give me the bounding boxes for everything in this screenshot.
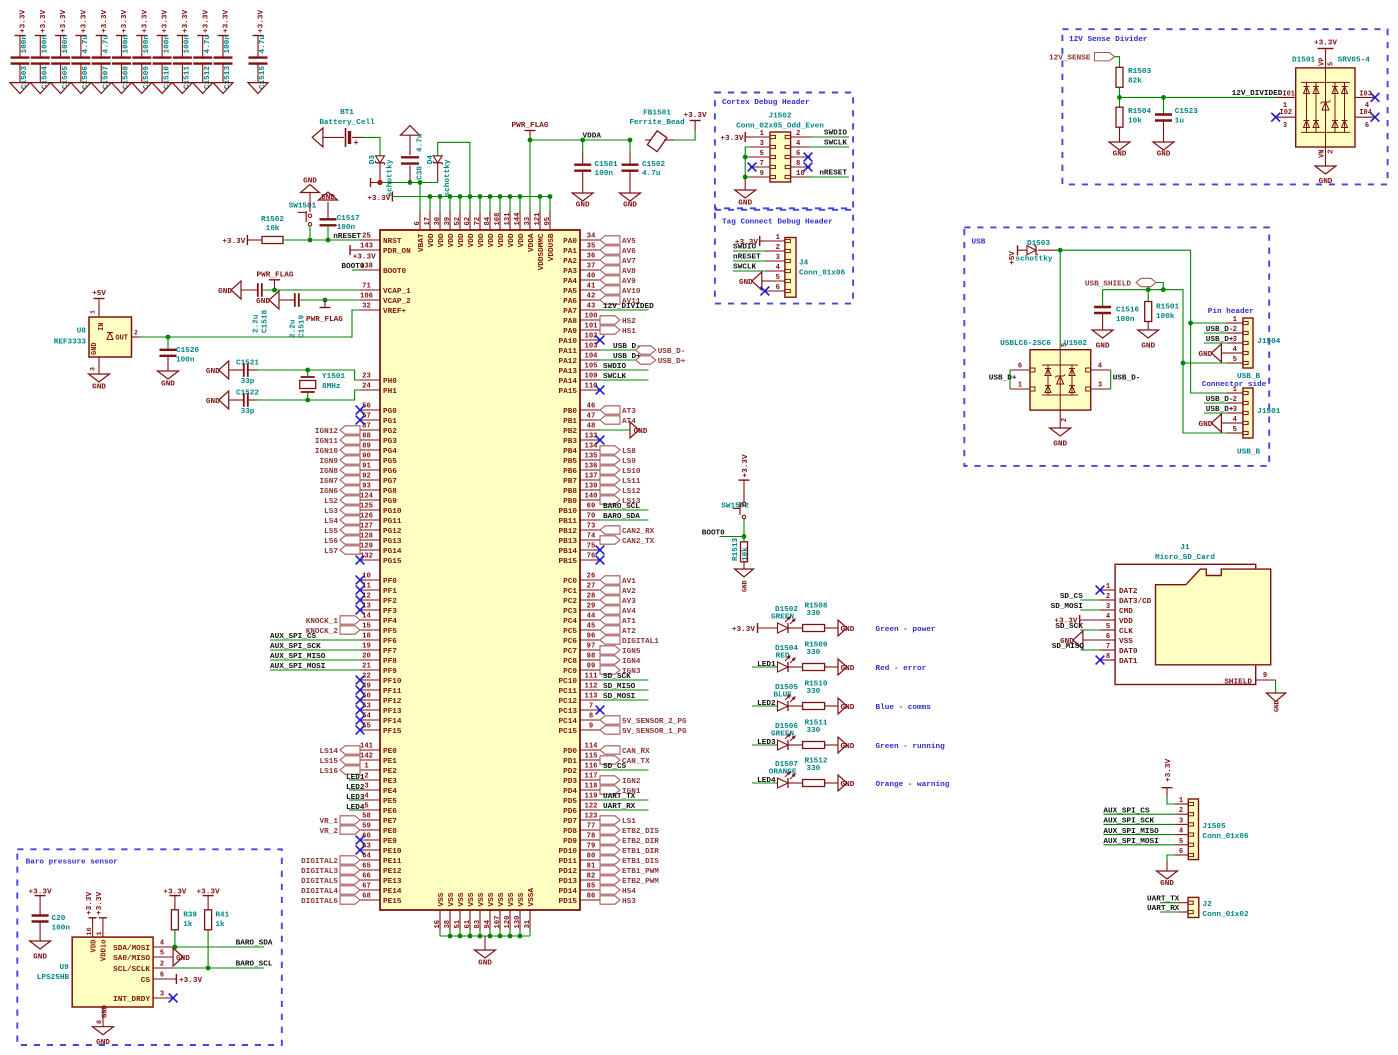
svg-text:59: 59 [362,823,371,831]
svg-text:PB9: PB9 [563,498,577,506]
svg-text:PD2: PD2 [563,768,577,776]
ground [1157,862,1178,888]
hier label 12V_SENSE [1049,53,1115,63]
node AUX_SPI_SCK [1103,818,1174,826]
power flag +3.3V [29,889,52,915]
svg-text:VSS: VSS [488,892,496,906]
no-connect [596,546,605,555]
svg-text:VDD: VDD [438,233,446,247]
svg-text:GND: GND [1274,700,1281,712]
pin 103 PA11 [559,343,600,356]
wire [1167,855,1174,862]
wire BARO_SCL [173,961,273,969]
svg-text:97: 97 [587,643,596,651]
svg-text:8: 8 [1106,653,1110,661]
svg-text:VDDA: VDDA [528,233,536,252]
svg-text:C1518: C1518 [261,310,269,333]
ground flag (battery -) [312,128,323,147]
svg-text:19: 19 [362,643,371,651]
svg-text:5: 5 [776,274,780,282]
junction [1161,287,1166,292]
pin 116 PD2 [563,763,600,776]
hier label CAN_RX [600,746,650,756]
pin 25 NRST [360,233,402,246]
svg-text:R1502: R1502 [261,216,284,224]
svg-text:R1503: R1503 [1128,68,1151,76]
svg-text:5: 5 [1106,623,1110,631]
pin 104 PA12 [559,353,600,366]
svg-text:PE10: PE10 [383,848,402,856]
svg-text:VR_1: VR_1 [320,818,339,826]
svg-text:LS14: LS14 [320,748,339,756]
svg-text:PC8: PC8 [563,658,577,666]
hier label HS2 [600,316,636,326]
svg-text:100: 100 [585,313,598,321]
svg-text:330: 330 [806,649,820,657]
pin 90 PG5 [360,453,397,466]
ground [620,193,641,209]
svg-text:I04: I04 [1359,109,1372,117]
svg-text:4: 4 [776,264,781,272]
hier label IGN5 [600,646,641,656]
connector J1505 [1174,797,1249,860]
svg-text:GND: GND [96,1039,110,1047]
capacitor C1513 [214,10,233,90]
node BOOT0 [341,263,364,271]
svg-text:90: 90 [362,453,371,461]
junction [448,194,453,199]
pin 21 PF9 [360,663,397,676]
node nRESET [733,254,765,262]
node USB_D+ [1204,336,1234,344]
svg-text:PA11: PA11 [559,348,578,356]
pin 119 PD5 [563,793,600,806]
svg-text:SHIELD: SHIELD [1224,679,1252,687]
svg-text:PDR_ON: PDR_ON [383,248,411,256]
hier label AV6 [600,246,636,256]
svg-text:LS2: LS2 [324,498,338,506]
svg-text:Y1501: Y1501 [322,373,345,381]
no-connect [1096,656,1105,665]
hier label AV4 [600,606,636,616]
ground [735,179,756,208]
pin 20 PF8 [360,653,397,666]
svg-text:PF0: PF0 [383,578,397,586]
pin 89 PG4 [360,443,397,456]
hier label ETB2_DIR [600,836,659,846]
svg-text:48: 48 [587,423,596,431]
svg-text:330: 330 [806,727,820,735]
pin 38 VSS [444,892,456,930]
svg-text:USB_D+: USB_D+ [1206,406,1234,414]
svg-text:38: 38 [444,920,452,929]
svg-text:93: 93 [362,483,371,491]
svg-text:133: 133 [585,433,598,441]
svg-text:VSS: VSS [468,892,476,906]
svg-text:DIGITAL1: DIGITAL1 [622,638,659,646]
node 12V_DIVIDED [600,303,654,311]
hier label AV10 [600,286,641,296]
svg-text:4.7u: 4.7u [102,35,110,54]
svg-text:PB12: PB12 [559,528,578,536]
svg-text:3: 3 [760,140,764,148]
hier label LS12 [600,486,641,496]
svg-text:AUX_SPI_SCK: AUX_SPI_SCK [270,643,321,651]
pin 42 PA6 [563,293,600,306]
pin 68 PE15 [360,893,402,906]
hier label LS9 [600,456,636,466]
hier label IGN11 [315,436,360,446]
hier label HS4 [600,886,636,896]
svg-text:PB0: PB0 [563,408,577,416]
ground [172,83,192,94]
svg-text:82k: 82k [1128,78,1142,86]
pin 85 PD14 [559,883,600,896]
pin 7 PC13 [559,703,600,716]
svg-text:GND: GND [1160,880,1174,888]
pin 22 PF10 [360,673,402,686]
svg-text:ETB2_DIR: ETB2_DIR [622,838,659,846]
svg-text:PC12: PC12 [559,698,578,706]
node AUX_SPI_MOSI [1103,838,1174,846]
capacitor C1508 [112,10,131,90]
svg-text:GND: GND [92,383,106,391]
node LED1 [752,661,778,669]
svg-text:100n: 100n [143,35,151,54]
svg-text:142: 142 [360,753,373,761]
svg-text:LS7: LS7 [324,548,338,556]
hier label AV2 [600,586,636,596]
svg-text:VSS: VSS [448,892,456,906]
svg-text:PF7: PF7 [383,648,397,656]
no-connect [1096,586,1105,595]
svg-text:USB_D-: USB_D- [1206,396,1234,404]
svg-text:LPS25HB: LPS25HB [37,974,70,982]
svg-text:PE6: PE6 [383,808,397,816]
no-connect [1371,113,1380,122]
svg-text:GND: GND [739,279,753,287]
svg-text:LED2: LED2 [346,784,365,792]
pin 67 PE14 [360,883,402,896]
svg-text:DAT0: DAT0 [1119,648,1138,656]
svg-text:PG8: PG8 [383,488,397,496]
svg-text:I03: I03 [1359,91,1372,99]
node LED3 [752,739,778,747]
wire [248,399,258,401]
svg-text:PB11: PB11 [559,518,578,526]
pin 50 PF12 [360,693,402,706]
hier label IGN9 [320,456,360,466]
svg-text:3: 3 [364,783,368,791]
wire USB_SHIELD [1103,283,1227,434]
wire [248,369,258,371]
no-connect [1371,93,1380,102]
pin 138 BOOT0 [360,263,406,276]
svg-text:4.7u: 4.7u [82,35,90,54]
no-connect [356,416,365,425]
no-connect [596,706,605,715]
wire VDDA [530,139,630,141]
pin 118 PD4 [563,783,600,796]
pin 41 PA5 [563,283,600,296]
svg-text:HS1: HS1 [622,328,636,336]
node UART_TX [1147,896,1180,904]
wire [600,429,630,431]
hier label VR_2 [320,826,360,836]
hier label LS16 [320,766,360,776]
svg-text:144: 144 [514,212,522,226]
svg-text:+3.3V: +3.3V [367,195,390,203]
node SD_MOSI [1051,603,1100,611]
svg-text:GND: GND [256,298,270,306]
junction [173,945,178,950]
svg-text:Micro_SD_Card: Micro_SD_Card [1155,554,1215,562]
svg-text:41: 41 [587,283,596,291]
svg-text:PC9: PC9 [563,668,577,676]
svg-text:+3.3V: +3.3V [81,10,89,33]
pin 26 PC0 [563,573,600,586]
svg-text:PF3: PF3 [383,608,397,616]
svg-text:4: 4 [1098,362,1102,370]
hier label KNOCK_2 [306,626,360,636]
svg-text:PB8: PB8 [563,488,577,496]
ground [739,272,765,290]
svg-text:PE9: PE9 [383,838,397,846]
pin 112 PC11 [559,683,600,696]
svg-text:PC0: PC0 [563,578,577,586]
svg-text:ETB1_DIS: ETB1_DIS [622,858,659,866]
svg-text:2: 2 [160,961,164,969]
svg-text:RED: RED [776,652,790,660]
ground [89,374,110,391]
pin 14 PF4 [360,613,397,626]
svg-text:CAN_TX: CAN_TX [622,758,650,766]
svg-text:LED3: LED3 [346,794,365,802]
svg-text:30: 30 [434,217,442,226]
pin 5 PE6 [360,803,397,816]
svg-text:VDD: VDD [1119,618,1133,626]
power flag PWR_FLAG [512,122,549,140]
wire [363,137,380,156]
svg-text:AT3: AT3 [622,408,636,416]
svg-text:UART_RX: UART_RX [603,803,636,811]
wire BARO_SDA [173,940,273,948]
pin 63 PE10 [360,843,402,856]
junction [528,138,533,143]
ground [1050,410,1071,448]
svg-text:ETB1_DIR: ETB1_DIR [622,848,659,856]
ground [630,422,648,438]
pin 141 PE0 [360,743,397,756]
pin 62 VDD [464,211,476,247]
pin 2 PE3 [360,773,397,786]
pin 97 PC7 [563,643,600,656]
svg-text:R41: R41 [215,912,229,920]
svg-text:51: 51 [454,919,462,928]
svg-text:VDD: VDD [458,233,466,247]
svg-text:Baro pressure sensor: Baro pressure sensor [26,858,119,866]
svg-text:1: 1 [1018,381,1022,389]
svg-text:126: 126 [360,513,373,521]
pin 1 PE2 [360,763,397,776]
hier label LS10 [600,466,641,476]
svg-text:26: 26 [587,573,596,581]
svg-text:GND: GND [841,781,855,789]
wire [429,197,431,212]
svg-text:KNOCK_1: KNOCK_1 [306,618,339,626]
ground [1199,414,1227,432]
svg-text:1k: 1k [183,921,193,929]
power flag +3.3V [739,454,750,502]
resistor R39 [163,889,197,948]
svg-text:+3.3V: +3.3V [258,10,266,33]
svg-text:PE5: PE5 [383,798,397,806]
junction [323,298,328,303]
battery BT1 [319,109,375,148]
junction [628,138,633,143]
pin 58 PE7 [360,813,397,826]
svg-text:127: 127 [360,523,373,531]
svg-text:104: 104 [585,353,599,361]
svg-text:65: 65 [362,863,371,871]
svg-text:AV10: AV10 [622,288,641,296]
svg-text:+3.3V: +3.3V [141,10,149,33]
pin 70 PB11 [559,513,600,526]
svg-text:PA9: PA9 [563,328,577,336]
svg-text:PG13: PG13 [383,538,402,546]
node SWDIO [733,244,765,252]
hier label LS1 [600,816,636,826]
svg-text:BARO_SDA: BARO_SDA [603,513,640,521]
svg-text:28: 28 [587,593,596,601]
svg-text:LS6: LS6 [324,538,338,546]
hier label AV7 [600,256,636,266]
svg-text:131: 131 [504,212,512,226]
svg-text:+3.3V: +3.3V [202,10,210,33]
ground [193,83,213,94]
pin 49 PF11 [360,683,402,696]
node BARO_SCL [600,503,649,511]
resistor R1501 [1145,290,1180,330]
svg-text:PF15: PF15 [383,728,402,736]
hier label IGN8 [320,466,360,476]
svg-text:Orange - warning: Orange - warning [876,781,950,789]
svg-text:89: 89 [362,443,371,451]
junction [1181,361,1186,366]
svg-text:Cortex Debug Header: Cortex Debug Header [722,99,810,107]
pin 16 VSS [434,892,446,930]
pin 91 PG6 [360,463,397,476]
junction [408,180,413,185]
svg-text:46: 46 [587,403,596,411]
svg-text:100n: 100n [176,357,195,365]
svg-text:J1502: J1502 [768,113,791,121]
svg-text:100n: 100n [52,925,71,933]
junction [743,155,748,160]
diode D4 [427,155,452,197]
svg-text:129: 129 [360,543,373,551]
svg-text:DAT2: DAT2 [1119,588,1138,596]
svg-text:84: 84 [484,216,492,225]
svg-text:PE7: PE7 [383,818,397,826]
pin 82 PD13 [559,873,600,886]
svg-text:PWR_FLAG: PWR_FLAG [257,272,294,280]
svg-text:120: 120 [504,916,512,929]
svg-text:8: 8 [589,713,593,721]
junction [166,335,171,340]
capacitor C1522 [236,389,259,416]
pin 11 PF1 [360,583,397,596]
svg-text:GND: GND [841,743,855,751]
svg-text:35: 35 [587,243,596,251]
no-connect [596,336,605,345]
pin 128 PG13 [360,533,402,546]
svg-text:PG11: PG11 [383,518,402,526]
no-connect [596,436,605,445]
svg-text:PE0: PE0 [383,748,397,756]
wire 12V_DIVIDED [1120,96,1276,98]
hier label AV1 [600,576,636,586]
pin 79 PD10 [559,843,600,856]
svg-text:Red - error: Red - error [876,665,927,673]
svg-text:PA5: PA5 [563,288,577,296]
hier label DIGITAL5 [301,876,360,886]
resistor R1508 [803,602,838,631]
svg-text:23: 23 [362,373,371,381]
node SD_MISO [1052,643,1100,651]
sensor U9 LPS25HB [37,918,173,1027]
svg-text:117: 117 [585,773,598,781]
svg-text:1: 1 [776,234,781,242]
hier label AV8 [600,266,636,276]
pin 142 PE1 [360,753,397,766]
svg-text:6: 6 [160,972,164,980]
svg-text:PF10: PF10 [383,678,402,686]
svg-text:125: 125 [360,503,373,511]
svg-text:100n: 100n [224,35,232,54]
regulator U8 [54,310,140,374]
svg-text:77: 77 [587,823,596,831]
junction [206,966,211,971]
hier label LS11 [600,476,641,486]
junction [498,194,503,199]
capacitor C1501 [574,140,618,193]
ground [301,177,320,196]
pin 99 PC9 [563,663,600,676]
svg-text:88: 88 [362,433,371,441]
svg-text:SD_MOSI: SD_MOSI [1051,603,1084,611]
svg-text:AV7: AV7 [622,258,636,266]
svg-text:62: 62 [464,217,472,226]
svg-text:GND: GND [478,959,492,967]
svg-text:100n: 100n [163,35,171,54]
svg-text:GND: GND [1096,342,1110,350]
hier label IGN7 [320,476,360,486]
svg-text:2: 2 [364,773,368,781]
pin 71 VCAP_1 [360,283,411,296]
junction [418,180,423,185]
capacitor C1503 [11,10,30,90]
junction [468,194,473,199]
no-connect [356,726,365,735]
hier label DIGITAL4 [301,886,360,896]
pin 76 PB15 [559,553,600,566]
svg-text:85: 85 [587,883,596,891]
svg-text:71: 71 [362,283,371,291]
svg-text:PD6: PD6 [563,808,577,816]
svg-text:schottky: schottky [444,159,452,196]
svg-text:5: 5 [1179,838,1183,846]
